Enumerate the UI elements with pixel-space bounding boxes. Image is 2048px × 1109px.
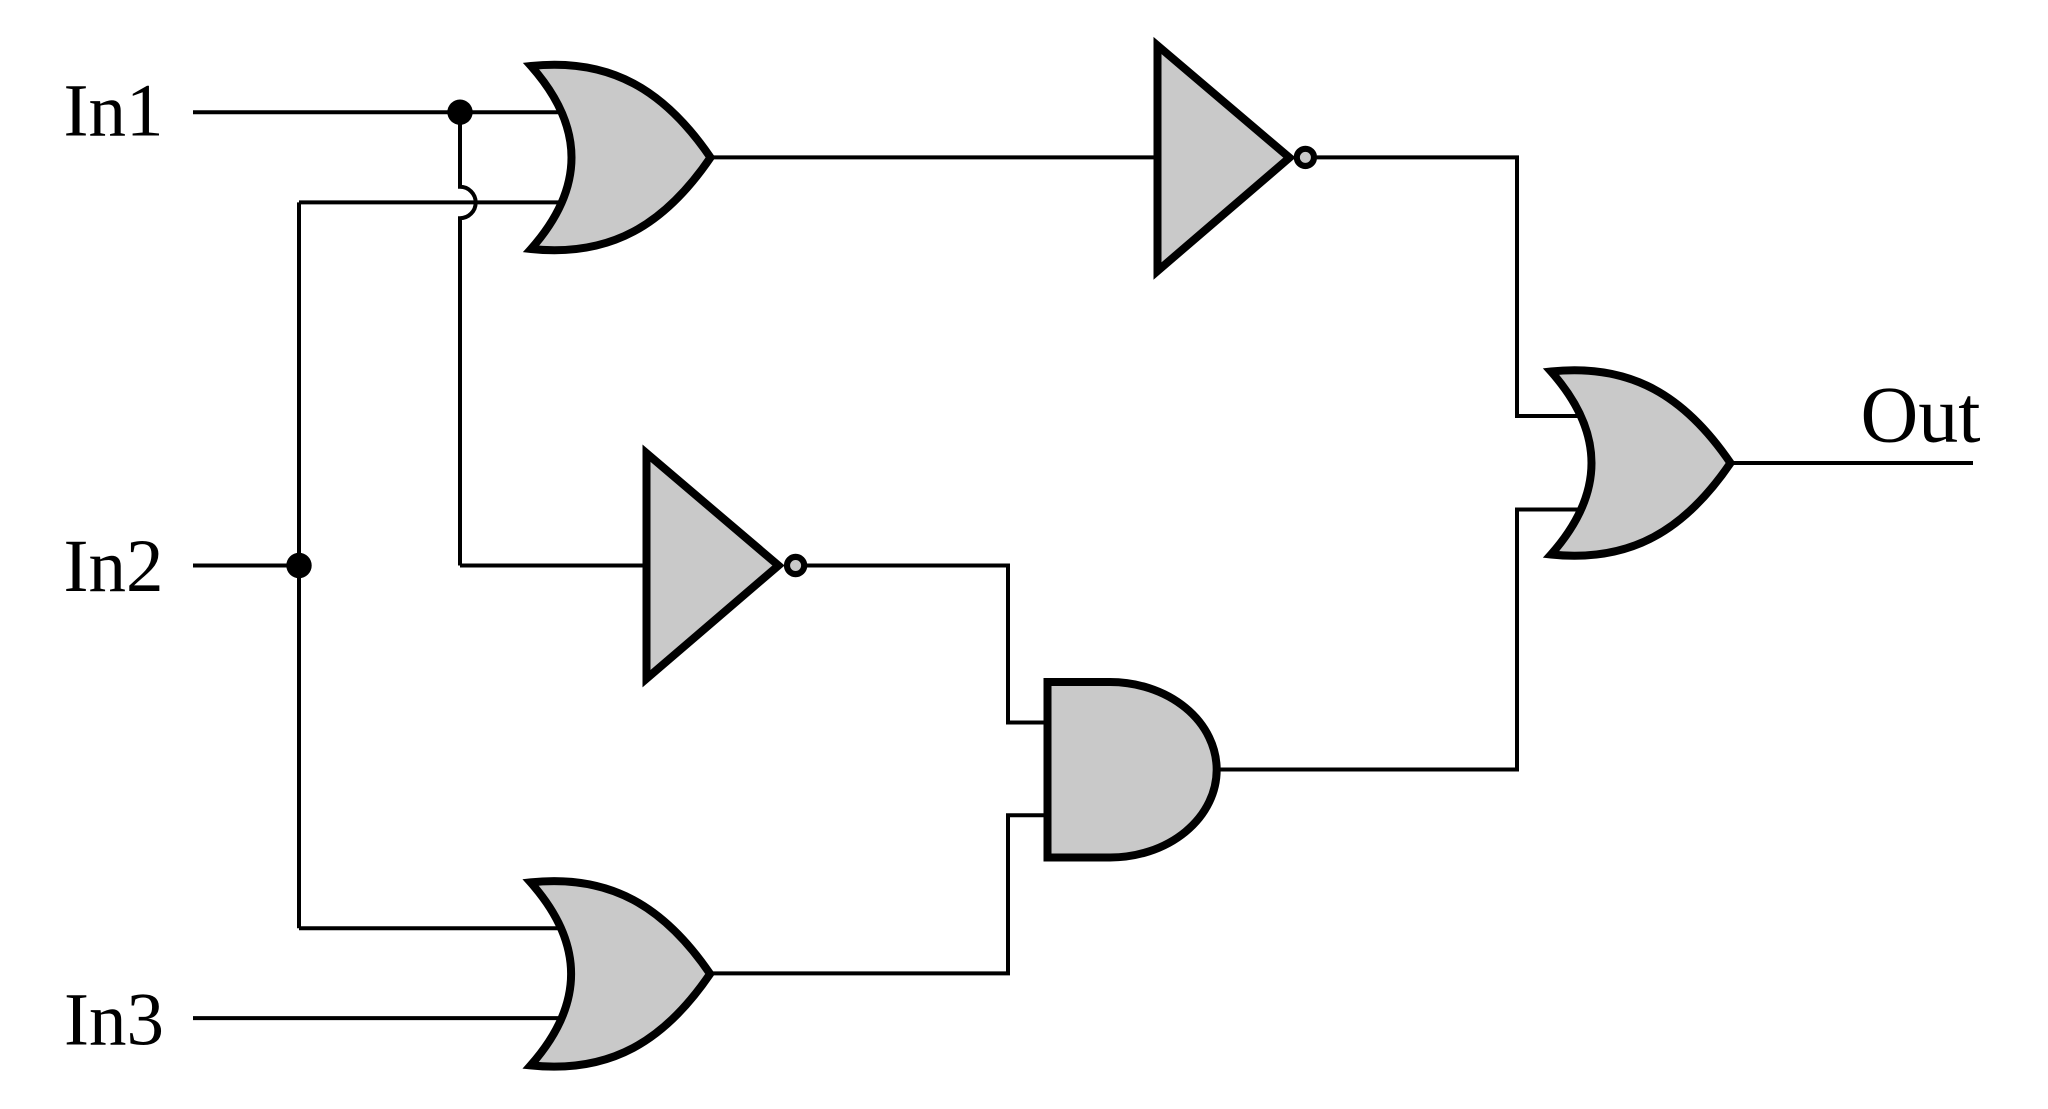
and-gate U4 <box>1048 682 1217 858</box>
wire In2 branch to OR2 top input <box>299 926 562 930</box>
node junction dot on In2 <box>286 553 311 578</box>
wire AND output to OR3 bottom input <box>1215 510 1584 770</box>
wire OR2 output to AND bottom input <box>709 815 1051 973</box>
wire In2 lead <box>193 564 299 568</box>
wire NOT2 output to AND top input <box>807 566 1051 723</box>
inverter NOT2 bubble <box>787 557 804 574</box>
wire In1 branch vertical with hop over In2 wire <box>460 112 476 565</box>
node junction dot on In1 <box>447 100 472 125</box>
or-gate OR2 <box>531 881 711 1067</box>
wire In3 lead to OR2 bottom input <box>193 1016 562 1020</box>
inverter NOT1 triangle <box>1158 46 1290 272</box>
wire In1 branch to NOT2 input <box>460 564 651 568</box>
wire In2 vertical bus <box>297 202 301 928</box>
wire NOT1 output to OR3 top input <box>1317 157 1584 416</box>
inverter NOT2 triangle <box>647 453 779 679</box>
svg-text:In3: In3 <box>64 979 164 1062</box>
or-gate OR1 <box>531 65 711 251</box>
wire OR1 output to NOT1 input <box>709 155 1160 159</box>
inverter NOT1 bubble <box>1297 149 1314 166</box>
wire OR3 output to Out <box>1731 461 1974 465</box>
wire In2 branch to OR1 bottom input <box>299 200 562 204</box>
or-gate OR3 <box>1551 370 1731 556</box>
svg-text:In1: In1 <box>64 70 164 153</box>
wire In1 lead to OR1 top input <box>193 110 562 114</box>
svg-text:In2: In2 <box>64 525 164 608</box>
svg-text:Out: Out <box>1861 372 1981 460</box>
